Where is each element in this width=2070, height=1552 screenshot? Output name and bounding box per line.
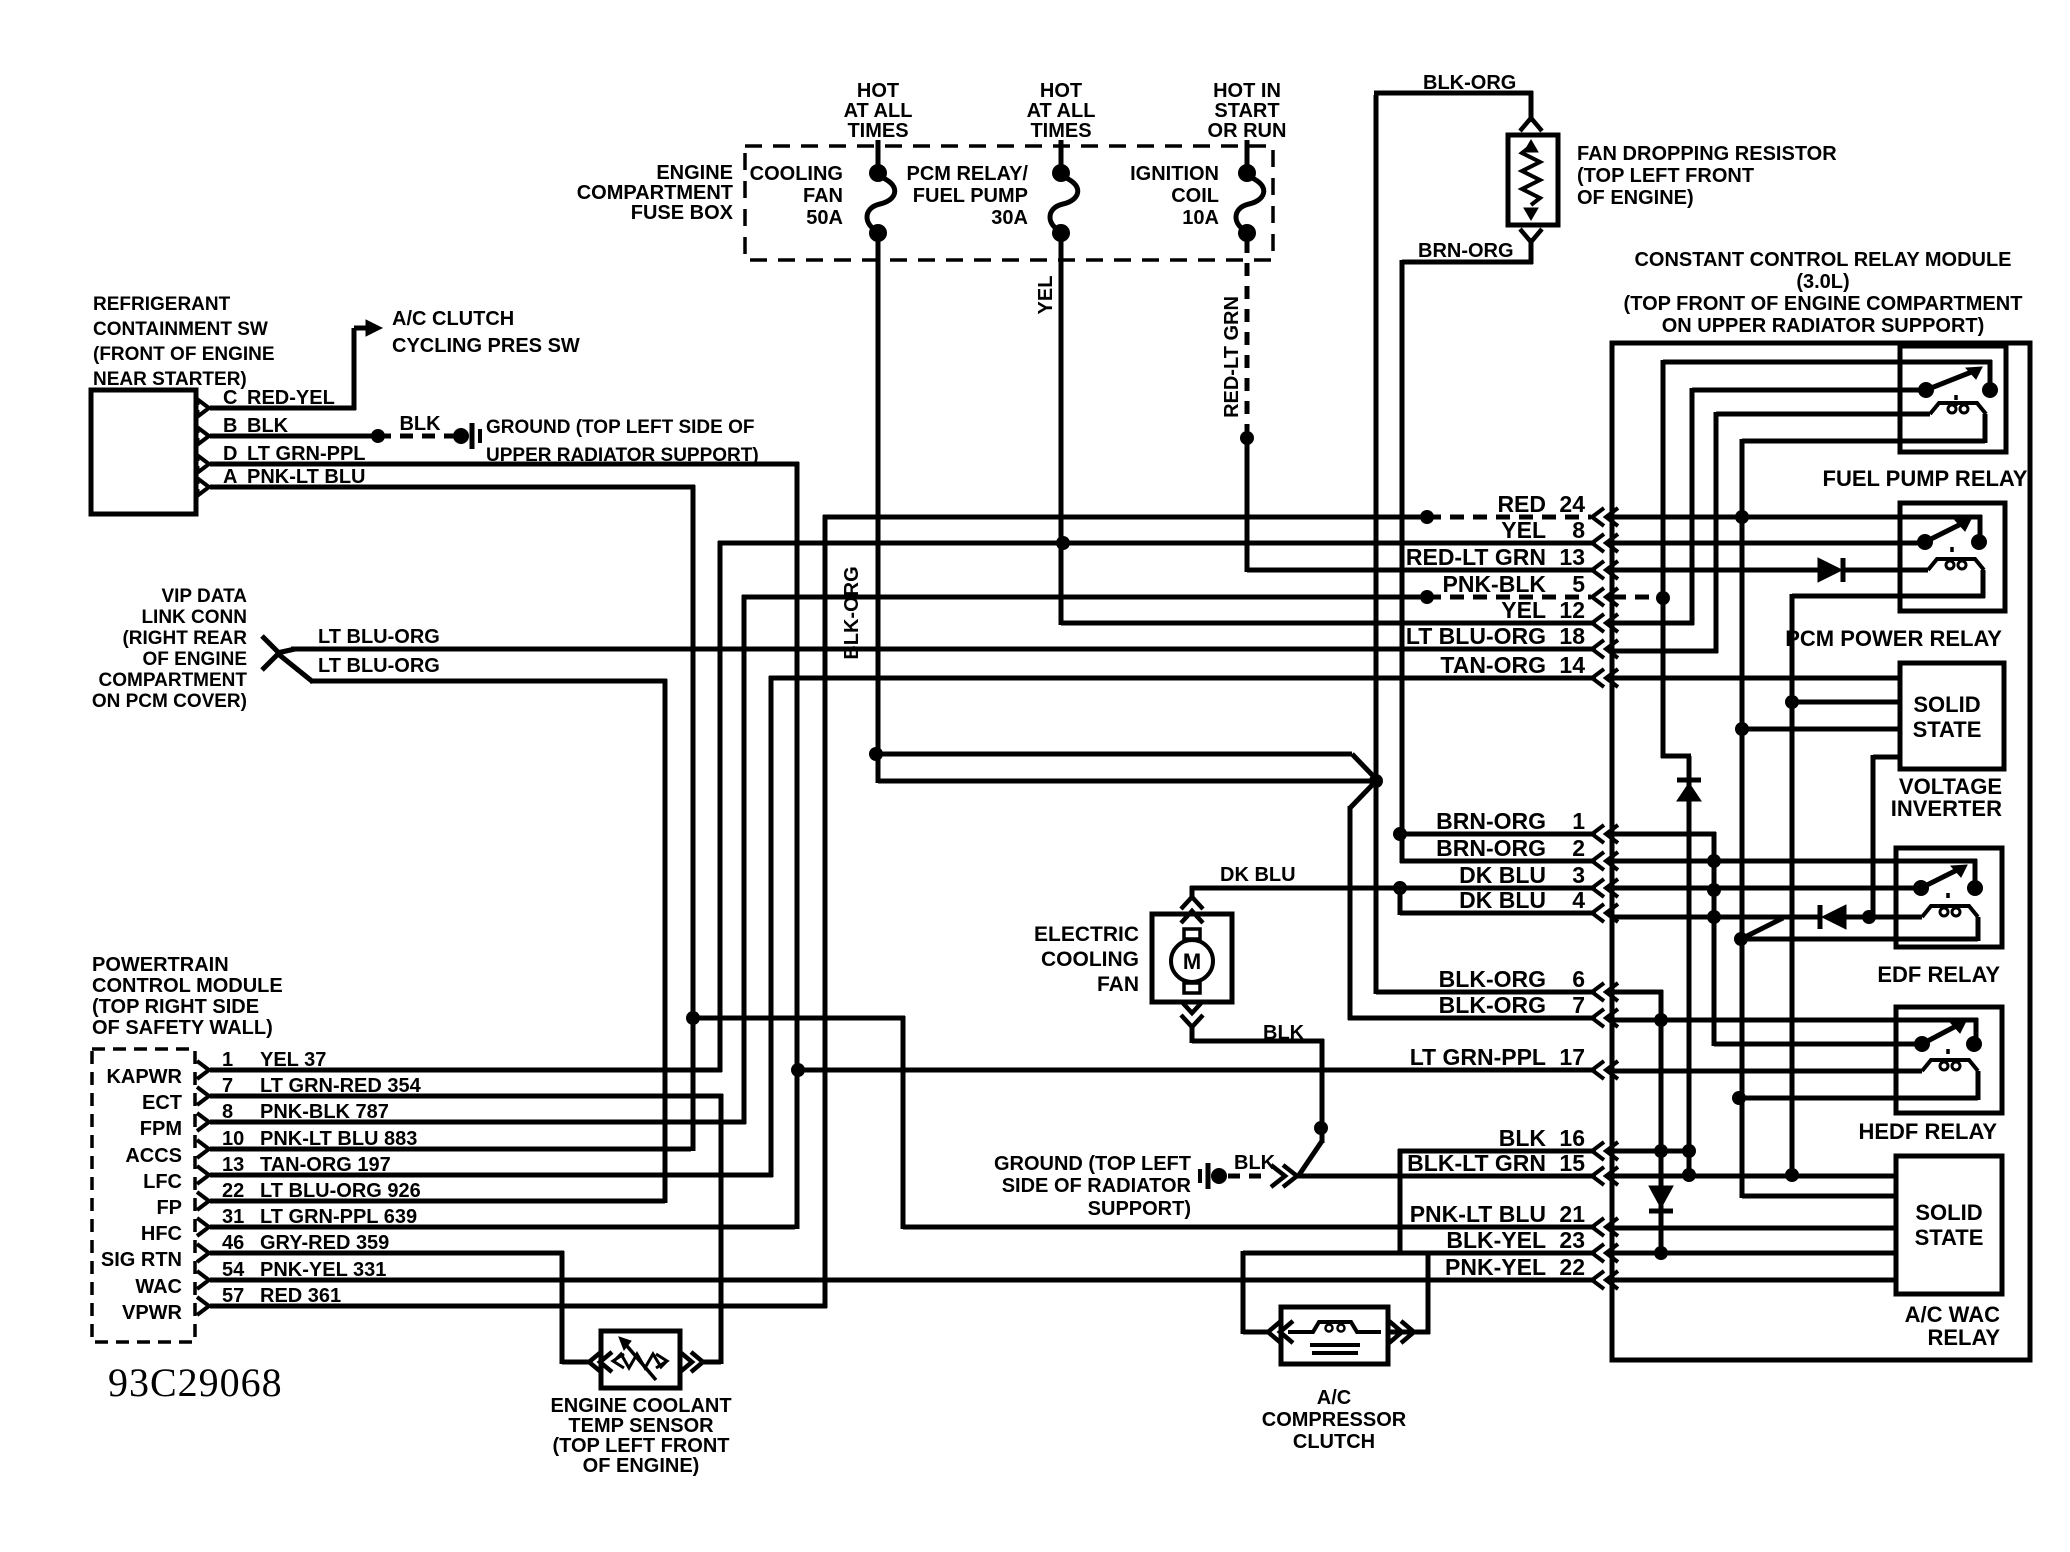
svg-text:6: 6 <box>1572 966 1585 992</box>
svg-text:A/C CLUTCH: A/C CLUTCH <box>392 308 514 330</box>
svg-text:ECT: ECT <box>142 1092 182 1114</box>
svg-text:OF SAFETY WALL): OF SAFETY WALL) <box>92 1017 273 1039</box>
svg-text:93C29068: 93C29068 <box>108 1360 283 1405</box>
svg-text:BLK-ORG: BLK-ORG <box>1439 966 1546 992</box>
svg-text:FUEL PUMP RELAY: FUEL PUMP RELAY <box>1823 466 2028 491</box>
svg-text:LT BLU-ORG 926: LT BLU-ORG 926 <box>260 1180 421 1202</box>
svg-text:YEL: YEL <box>1501 597 1546 623</box>
svg-text:5: 5 <box>1572 571 1585 597</box>
svg-text:VIP DATA: VIP DATA <box>161 586 247 607</box>
svg-text:SOLID: SOLID <box>1913 692 1980 717</box>
svg-text:BLK: BLK <box>1234 1152 1276 1174</box>
svg-text:HEDF RELAY: HEDF RELAY <box>1858 1119 1997 1144</box>
svg-text:LFC: LFC <box>143 1171 182 1193</box>
svg-text:(RIGHT REAR: (RIGHT REAR <box>122 628 247 649</box>
svg-text:8: 8 <box>1572 517 1585 543</box>
svg-text:BLK-ORG: BLK-ORG <box>841 566 863 659</box>
svg-text:B: B <box>223 415 237 437</box>
svg-text:TAN-ORG 197: TAN-ORG 197 <box>260 1154 391 1176</box>
svg-text:LT GRN-PPL: LT GRN-PPL <box>1410 1044 1546 1070</box>
svg-text:ENGINE: ENGINE <box>656 162 733 184</box>
svg-text:YEL: YEL <box>1035 276 1057 315</box>
svg-text:STATE: STATE <box>1915 1225 1984 1250</box>
svg-text:17: 17 <box>1559 1044 1585 1070</box>
svg-text:8: 8 <box>222 1101 233 1123</box>
svg-text:FP: FP <box>156 1197 182 1219</box>
svg-text:YEL: YEL <box>1501 517 1546 543</box>
svg-text:22: 22 <box>1559 1254 1585 1280</box>
svg-text:OF ENGINE): OF ENGINE) <box>1577 187 1694 209</box>
svg-text:BLK-LT GRN: BLK-LT GRN <box>1407 1150 1546 1176</box>
svg-text:FAN DROPPING RESISTOR: FAN DROPPING RESISTOR <box>1577 143 1837 165</box>
svg-text:(TOP LEFT FRONT: (TOP LEFT FRONT <box>552 1435 729 1457</box>
svg-text:(TOP RIGHT SIDE: (TOP RIGHT SIDE <box>92 996 259 1018</box>
svg-text:BLK-YEL: BLK-YEL <box>1446 1227 1546 1253</box>
svg-text:15: 15 <box>1559 1150 1585 1176</box>
svg-text:BLK: BLK <box>1499 1125 1547 1151</box>
svg-text:BLK: BLK <box>399 413 441 435</box>
svg-text:KAPWR: KAPWR <box>106 1066 182 1088</box>
svg-text:WAC: WAC <box>135 1276 182 1298</box>
svg-text:DK BLU: DK BLU <box>1459 862 1546 888</box>
svg-text:1: 1 <box>222 1049 233 1071</box>
svg-text:30A: 30A <box>991 207 1028 229</box>
svg-text:HOT: HOT <box>1040 80 1082 102</box>
svg-text:LT GRN-PPL: LT GRN-PPL <box>247 443 366 465</box>
svg-text:M: M <box>1183 949 1201 974</box>
svg-text:SUPPORT): SUPPORT) <box>1088 1198 1191 1220</box>
svg-text:13: 13 <box>1559 544 1585 570</box>
svg-text:BLK: BLK <box>1263 1022 1305 1044</box>
svg-text:(TOP FRONT OF ENGINE COMPARTME: (TOP FRONT OF ENGINE COMPARTMENT <box>1624 293 2023 315</box>
svg-text:10A: 10A <box>1182 207 1219 229</box>
svg-text:TIMES: TIMES <box>847 120 908 142</box>
svg-text:PNK-YEL: PNK-YEL <box>1445 1254 1546 1280</box>
svg-text:4: 4 <box>1572 887 1585 913</box>
svg-text:RED: RED <box>1497 491 1546 517</box>
svg-text:OR RUN: OR RUN <box>1208 120 1287 142</box>
svg-text:PNK-LT BLU 883: PNK-LT BLU 883 <box>260 1128 417 1150</box>
svg-text:BLK-ORG: BLK-ORG <box>1423 72 1516 94</box>
svg-text:PNK-BLK: PNK-BLK <box>1443 571 1547 597</box>
svg-text:COIL: COIL <box>1171 185 1219 207</box>
svg-text:START: START <box>1214 100 1279 122</box>
svg-text:TIMES: TIMES <box>1030 120 1091 142</box>
svg-text:GRY-RED 359: GRY-RED 359 <box>260 1232 389 1254</box>
svg-text:18: 18 <box>1559 623 1585 649</box>
svg-text:RELAY: RELAY <box>1927 1325 2000 1350</box>
svg-text:TEMP SENSOR: TEMP SENSOR <box>568 1415 714 1437</box>
svg-text:CONTROL MODULE: CONTROL MODULE <box>92 975 283 997</box>
svg-text:LT GRN-PPL 639: LT GRN-PPL 639 <box>260 1206 417 1228</box>
svg-text:HFC: HFC <box>141 1223 182 1245</box>
svg-text:POWERTRAIN: POWERTRAIN <box>92 954 229 976</box>
svg-text:VPWR: VPWR <box>122 1302 183 1324</box>
svg-text:2: 2 <box>1572 835 1585 861</box>
svg-text:GROUND (TOP LEFT SIDE OF: GROUND (TOP LEFT SIDE OF <box>486 417 754 438</box>
svg-text:EDF RELAY: EDF RELAY <box>1877 962 2000 987</box>
svg-text:RED-LT GRN: RED-LT GRN <box>1221 296 1243 418</box>
svg-text:REFRIGERANT: REFRIGERANT <box>93 294 231 315</box>
svg-text:ENGINE COOLANT: ENGINE COOLANT <box>550 1395 731 1417</box>
svg-text:PNK-BLK 787: PNK-BLK 787 <box>260 1101 389 1123</box>
svg-text:22: 22 <box>222 1180 244 1202</box>
svg-text:ON UPPER RADIATOR SUPPORT): ON UPPER RADIATOR SUPPORT) <box>1662 315 1985 337</box>
svg-text:12: 12 <box>1559 597 1585 623</box>
svg-text:COMPRESSOR: COMPRESSOR <box>1262 1409 1407 1431</box>
svg-text:FUSE BOX: FUSE BOX <box>631 202 734 224</box>
svg-text:BLK-ORG: BLK-ORG <box>1439 992 1546 1018</box>
svg-text:(TOP LEFT FRONT: (TOP LEFT FRONT <box>1577 165 1754 187</box>
svg-text:COOLING: COOLING <box>1041 948 1139 971</box>
svg-text:UPPER RADIATOR SUPPORT): UPPER RADIATOR SUPPORT) <box>486 445 759 466</box>
svg-text:LT BLU-ORG: LT BLU-ORG <box>1406 623 1546 649</box>
svg-text:CONTAINMENT SW: CONTAINMENT SW <box>93 319 268 340</box>
svg-text:23: 23 <box>1559 1227 1585 1253</box>
svg-text:1: 1 <box>1572 808 1585 834</box>
svg-text:24: 24 <box>1559 491 1585 517</box>
svg-text:ELECTRIC: ELECTRIC <box>1034 923 1139 946</box>
svg-text:HOT IN: HOT IN <box>1213 80 1281 102</box>
svg-text:COMPARTMENT: COMPARTMENT <box>577 182 733 204</box>
svg-text:STATE: STATE <box>1913 717 1982 742</box>
svg-text:RED 361: RED 361 <box>260 1285 341 1307</box>
svg-text:AT ALL: AT ALL <box>1027 100 1096 122</box>
svg-text:GROUND (TOP LEFT: GROUND (TOP LEFT <box>994 1153 1191 1175</box>
svg-text:A/C WAC: A/C WAC <box>1905 1302 2000 1327</box>
svg-text:DK BLU: DK BLU <box>1459 887 1546 913</box>
svg-text:31: 31 <box>222 1206 244 1228</box>
svg-text:CLUTCH: CLUTCH <box>1293 1431 1375 1453</box>
svg-text:54: 54 <box>222 1259 245 1281</box>
svg-text:BRN-ORG: BRN-ORG <box>1436 835 1546 861</box>
svg-text:7: 7 <box>222 1075 233 1097</box>
svg-text:PCM RELAY/: PCM RELAY/ <box>906 163 1028 185</box>
svg-text:14: 14 <box>1559 652 1585 678</box>
svg-text:7: 7 <box>1572 992 1585 1018</box>
svg-text:COOLING: COOLING <box>750 163 843 185</box>
svg-text:SIDE OF RADIATOR: SIDE OF RADIATOR <box>1002 1175 1192 1197</box>
svg-text:(3.0L): (3.0L) <box>1796 271 1849 293</box>
svg-text:D: D <box>223 443 237 465</box>
svg-text:CYCLING PRES SW: CYCLING PRES SW <box>392 335 580 357</box>
svg-text:21: 21 <box>1559 1201 1585 1227</box>
svg-text:FUEL PUMP: FUEL PUMP <box>913 185 1028 207</box>
svg-text:ACCS: ACCS <box>125 1145 182 1167</box>
svg-text:FAN: FAN <box>803 185 843 207</box>
svg-text:ON PCM COVER): ON PCM COVER) <box>92 691 247 712</box>
svg-text:A: A <box>223 466 237 488</box>
svg-text:OF ENGINE): OF ENGINE) <box>583 1455 700 1477</box>
svg-text:LT BLU-ORG: LT BLU-ORG <box>318 655 440 677</box>
svg-text:CONSTANT CONTROL RELAY MODULE: CONSTANT CONTROL RELAY MODULE <box>1634 249 2011 271</box>
svg-text:50A: 50A <box>806 207 843 229</box>
svg-text:TAN-ORG: TAN-ORG <box>1440 652 1546 678</box>
svg-text:FPM: FPM <box>140 1118 182 1140</box>
svg-text:BRN-ORG: BRN-ORG <box>1436 808 1546 834</box>
svg-text:INVERTER: INVERTER <box>1891 796 2002 821</box>
svg-text:HOT: HOT <box>857 80 899 102</box>
svg-text:16: 16 <box>1559 1125 1585 1151</box>
svg-text:RED-LT GRN: RED-LT GRN <box>1406 544 1546 570</box>
svg-text:COMPARTMENT: COMPARTMENT <box>99 670 248 691</box>
svg-text:LT BLU-ORG: LT BLU-ORG <box>318 626 440 648</box>
svg-text:DK BLU: DK BLU <box>1220 864 1296 886</box>
svg-text:13: 13 <box>222 1154 244 1176</box>
svg-text:46: 46 <box>222 1232 244 1254</box>
svg-text:BRN-ORG: BRN-ORG <box>1418 240 1514 262</box>
svg-text:SOLID: SOLID <box>1915 1200 1982 1225</box>
svg-text:C: C <box>223 387 237 409</box>
svg-text:57: 57 <box>222 1285 244 1307</box>
svg-text:PCM POWER RELAY: PCM POWER RELAY <box>1785 626 2002 651</box>
svg-text:RED-YEL: RED-YEL <box>247 387 335 409</box>
svg-text:OF ENGINE: OF ENGINE <box>142 649 247 670</box>
svg-text:AT ALL: AT ALL <box>844 100 913 122</box>
svg-text:BLK: BLK <box>247 415 289 437</box>
svg-text:PNK-YEL 331: PNK-YEL 331 <box>260 1259 386 1281</box>
svg-text:FAN: FAN <box>1097 973 1139 996</box>
svg-text:A/C: A/C <box>1317 1387 1351 1409</box>
svg-text:LINK CONN: LINK CONN <box>141 607 247 628</box>
svg-text:SIG RTN: SIG RTN <box>101 1249 182 1271</box>
svg-text:PNK-LT BLU: PNK-LT BLU <box>247 466 366 488</box>
svg-text:3: 3 <box>1572 862 1585 888</box>
svg-text:(FRONT OF ENGINE: (FRONT OF ENGINE <box>93 344 275 365</box>
svg-text:IGNITION: IGNITION <box>1130 163 1219 185</box>
svg-text:YEL 37: YEL 37 <box>260 1049 326 1071</box>
svg-text:PNK-LT BLU: PNK-LT BLU <box>1410 1201 1546 1227</box>
svg-text:LT GRN-RED 354: LT GRN-RED 354 <box>260 1075 422 1097</box>
svg-text:10: 10 <box>222 1128 244 1150</box>
